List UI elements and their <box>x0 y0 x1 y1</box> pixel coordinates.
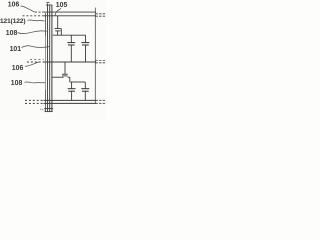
svg-text:108: 108 <box>11 80 23 87</box>
svg-text:108: 108 <box>6 30 18 37</box>
svg-text:106: 106 <box>12 65 24 72</box>
svg-text:101: 101 <box>10 46 22 53</box>
svg-text:121(122): 121(122) <box>0 18 25 25</box>
svg-text:106: 106 <box>8 2 20 9</box>
svg-text:105: 105 <box>56 2 68 9</box>
